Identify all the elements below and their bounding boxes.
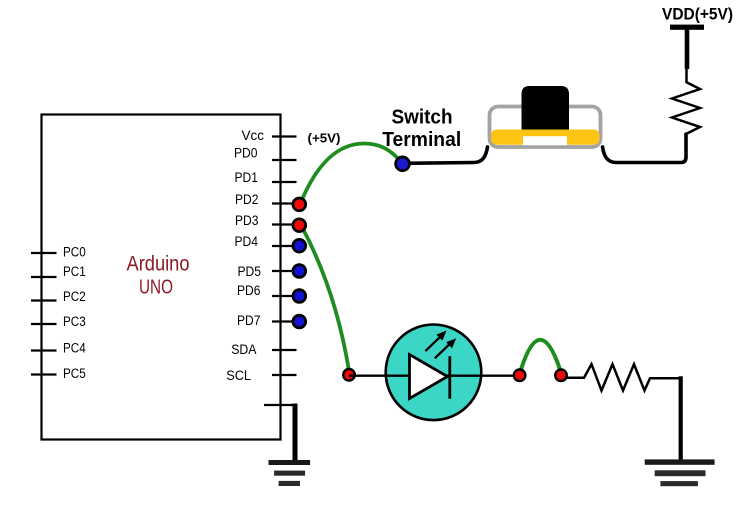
svg-text:(+5V): (+5V) <box>308 132 341 146</box>
LED D1 body <box>386 325 482 421</box>
ground GND1 <box>269 460 311 486</box>
resistor R1 (vertical) <box>672 82 700 134</box>
label Switch Terminal <box>382 107 461 152</box>
pin PD3 <box>235 213 297 229</box>
wire PD3 to LED anode node (green) <box>302 227 349 371</box>
ground GND2 <box>645 459 715 486</box>
pin Vcc <box>242 128 297 144</box>
wire across LED body <box>386 375 481 377</box>
Arduino UNO body U1 <box>42 115 281 440</box>
switch S1 frame <box>490 107 601 148</box>
svg-text:PC0: PC0 <box>63 245 86 261</box>
svg-text:PD7: PD7 <box>237 313 261 329</box>
svg-text:VDD(+5V): VDD(+5V) <box>662 5 733 23</box>
pin PC5 <box>31 366 86 382</box>
wire switch terminal to switch S1 left lead <box>404 147 488 163</box>
node PD3 (red) <box>293 219 306 232</box>
LED D1 triangle (anode) <box>410 355 448 399</box>
pin PC4 <box>31 341 86 357</box>
svg-text:SDA: SDA <box>231 342 257 358</box>
wire PD2 to switch terminal (green) <box>301 144 401 203</box>
pin PD1 <box>235 170 297 186</box>
node switch terminal (blue) <box>396 157 410 171</box>
node PD6 (blue) <box>293 290 306 303</box>
node PD5 (blue) <box>293 265 306 278</box>
svg-text:PD1: PD1 <box>235 170 259 186</box>
svg-text:PD5: PD5 <box>238 264 262 280</box>
svg-text:PC2: PC2 <box>63 289 86 305</box>
wire anode node through LED to cathode node <box>349 375 520 377</box>
pin PC2 <box>31 289 86 305</box>
label (+5V) <box>308 132 341 146</box>
svg-text:PC3: PC3 <box>63 314 86 330</box>
pin GND (Arduino bottom) <box>264 404 294 406</box>
svg-text:SCL: SCL <box>226 368 251 384</box>
pin PD6 <box>237 283 297 299</box>
node PD7 (blue) <box>293 315 306 328</box>
svg-text:PD2: PD2 <box>235 192 259 208</box>
wire R2 to ground GND2 <box>679 376 683 460</box>
LED D1 cathode bar <box>448 356 451 399</box>
node PD2 (red) <box>293 198 306 211</box>
resistor R2 (horizontal) with lead wires <box>566 364 679 390</box>
svg-text:PD3: PD3 <box>235 213 259 229</box>
svg-text:PC4: PC4 <box>63 341 86 357</box>
pin PC0 <box>31 245 86 261</box>
node PD4 (blue) <box>293 239 306 252</box>
pin PD4 <box>235 234 297 250</box>
wire Arduino GND pin to ground GND1 <box>293 404 298 462</box>
node LED anode junction (red) <box>343 369 355 381</box>
power rail label VDD(+5V) <box>662 5 733 23</box>
svg-text:PD6: PD6 <box>237 283 261 299</box>
svg-text:Vcc: Vcc <box>242 128 265 144</box>
label Arduino UNO <box>127 253 190 299</box>
svg-text:Arduino: Arduino <box>127 253 190 276</box>
pin PD2 <box>235 192 297 208</box>
pin PD7 <box>237 313 297 329</box>
pin PC3 <box>31 314 86 330</box>
svg-text:PD4: PD4 <box>235 234 259 250</box>
switch S1 button <box>522 86 570 130</box>
power rail bar VDD <box>670 25 704 30</box>
pin PD0 <box>234 146 297 162</box>
node LED cathode junction (red) <box>514 370 526 382</box>
svg-text:Switch: Switch <box>392 107 453 129</box>
wire switch S1 right lead to resistor R1 bottom <box>603 134 687 163</box>
LED D1 emission arrows <box>425 331 456 359</box>
node resistor R2 left junction (red) <box>555 370 567 382</box>
pin SCL <box>226 368 296 384</box>
svg-text:PC1: PC1 <box>63 264 86 280</box>
pin SDA <box>231 342 296 358</box>
svg-text:PC5: PC5 <box>63 366 86 382</box>
svg-text:PD0: PD0 <box>234 146 258 162</box>
svg-text:UNO: UNO <box>139 277 173 299</box>
pin PC1 <box>31 264 86 280</box>
wire jumper arc (green) <box>521 340 560 370</box>
wire VDD bar to resistor R1 top <box>684 29 689 83</box>
switch S1 contact bar (yellow) <box>491 130 600 146</box>
svg-text:Terminal: Terminal <box>382 129 461 151</box>
pin PD5 <box>238 264 297 280</box>
